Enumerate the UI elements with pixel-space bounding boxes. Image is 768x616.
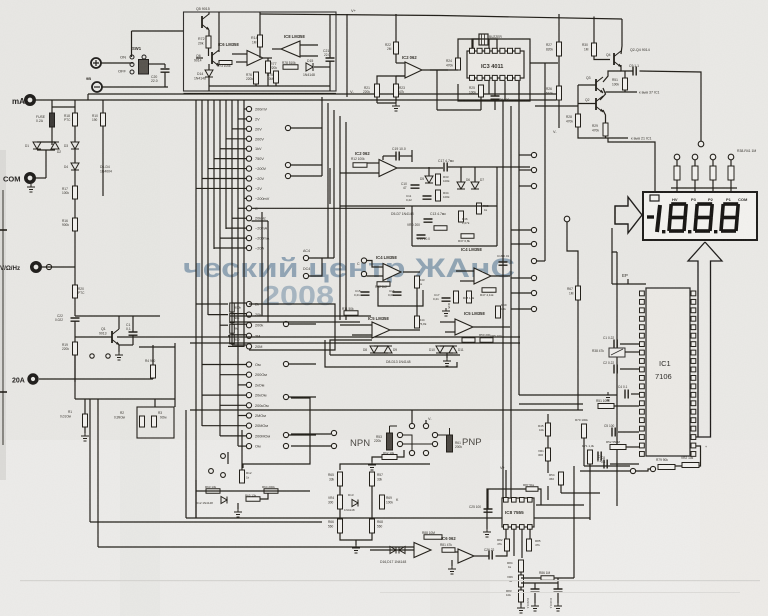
wire Q2 base stub xyxy=(578,103,596,105)
wire range stub row 14 xyxy=(220,237,246,239)
wire C19 left drop xyxy=(382,156,384,160)
wire IC8 in bottom xyxy=(300,55,318,57)
LCD decimal point 1 xyxy=(662,230,665,233)
wire IC5a in- xyxy=(352,334,372,336)
resistor R54b xyxy=(559,472,564,485)
wire D10 gnd drop xyxy=(446,353,448,358)
ground below C29 xyxy=(531,603,539,611)
wire C25 up xyxy=(487,489,489,509)
diode D11 xyxy=(449,346,457,353)
wire range stub row 11 xyxy=(238,207,246,209)
range contact 20k xyxy=(246,312,251,317)
wire selector out 4 xyxy=(289,323,317,325)
wire C17 right xyxy=(448,166,530,168)
contact DC4 xyxy=(303,273,308,278)
IC3 4011 body xyxy=(467,51,524,78)
capacitor C9 xyxy=(633,67,636,76)
wire IC4b out xyxy=(491,275,510,277)
diode D9 xyxy=(384,346,392,353)
wire range3 stub row 7 xyxy=(202,425,246,427)
capacitor C20 xyxy=(161,69,170,72)
wire col2 stub y230 xyxy=(511,229,531,231)
wire into IC6b xyxy=(370,549,414,551)
wire V+ drop to IC8 xyxy=(505,470,507,497)
wire range stub row 15 xyxy=(214,247,246,249)
range contact 200V xyxy=(246,136,251,141)
wire switch left riser xyxy=(131,31,133,57)
wire range stub row 3 xyxy=(232,128,246,130)
wire caps bus xyxy=(521,582,558,584)
wire EP tick xyxy=(627,279,629,284)
wire R67 bottom xyxy=(577,300,579,410)
wire range stub row 8 xyxy=(202,178,246,180)
wire range stub row 2 xyxy=(238,118,246,120)
wire IC6 inverting input xyxy=(232,53,247,55)
wire IC8 right link xyxy=(536,504,584,506)
resistor R20 PTC xyxy=(73,285,78,298)
wire R22 top xyxy=(395,14,397,42)
wire IC8 out left xyxy=(272,48,281,50)
resistor R52 xyxy=(610,445,626,450)
range contact 200k xyxy=(246,323,251,328)
wire mid block right drop xyxy=(496,167,498,246)
arrow pointer to display xyxy=(615,197,642,233)
wire box bottom double line xyxy=(184,93,337,95)
resistor R4 xyxy=(151,365,156,378)
battery B1 minus terminal xyxy=(92,82,102,92)
socket contact 334,446 xyxy=(331,443,336,448)
wire C6b stub xyxy=(610,463,639,465)
range contact 20V xyxy=(246,126,251,131)
capacitor C6 200 xyxy=(491,96,500,99)
wire Q1 top bus xyxy=(75,315,160,317)
wire D5 feed xyxy=(428,167,430,176)
wire IC3 bus drop xyxy=(436,70,438,110)
power regulator box xyxy=(184,12,337,91)
op-amp IC6b xyxy=(414,543,431,558)
diode D7 xyxy=(471,182,479,189)
LCD decimal point 3 xyxy=(714,230,717,233)
wire C19 tick xyxy=(411,150,413,162)
wire R86 to vertical xyxy=(554,577,574,579)
LCD display body xyxy=(643,192,757,240)
resistor R76 xyxy=(254,72,259,84)
wire D12 gnd drop xyxy=(237,503,239,509)
wire diode row box xyxy=(325,340,457,367)
wire D7 feed xyxy=(474,167,476,182)
wire C2b stub xyxy=(620,368,639,370)
wire D10 D11 top xyxy=(440,345,453,347)
capacitor C29 xyxy=(531,589,540,592)
wire range stub row 4 xyxy=(226,138,246,140)
wire IC8 in top xyxy=(300,44,318,46)
divider resistor 9k xyxy=(230,324,235,333)
wire R21 bottom xyxy=(377,102,396,104)
IC8 top pins xyxy=(504,498,509,503)
pot R38 47k xyxy=(609,348,625,357)
wire IC5a out xyxy=(390,329,420,331)
wire R21 to input xyxy=(377,76,405,84)
wire R51 bottom xyxy=(624,90,626,92)
wire IC4a in+ from contact xyxy=(367,261,384,268)
wire selector out 6 xyxy=(289,396,317,398)
wire D14 to box bottom xyxy=(208,77,210,91)
resistor R66 xyxy=(338,519,343,533)
wire Q6 collector up xyxy=(218,12,220,52)
wire col2 stub y278 xyxy=(511,277,531,279)
resistor R34 xyxy=(436,190,441,201)
ground below R83 xyxy=(517,605,525,613)
wire R24 link IC2 xyxy=(430,69,458,71)
resistor R79 90k xyxy=(658,465,675,470)
resistor R2 xyxy=(140,416,145,427)
wire R75 bottom xyxy=(275,83,277,86)
resistor R12b 1k xyxy=(240,470,245,483)
resistor R61 xyxy=(447,435,453,452)
wire C30 up xyxy=(557,578,559,589)
wire bus y410 xyxy=(190,409,583,411)
wire IC8 pin drop 4 xyxy=(529,529,531,539)
IC1 right pins xyxy=(691,291,696,296)
wire R27 to R26 xyxy=(558,56,560,86)
resistor R16 xyxy=(73,218,78,231)
wire range stub row 5 xyxy=(220,148,246,150)
wire IC3 pin3 up xyxy=(488,39,490,48)
range contact 20kHz xyxy=(246,216,251,221)
op-amp IC2a xyxy=(405,62,422,78)
ground below C17b xyxy=(442,308,450,316)
resistor R11 50k xyxy=(344,311,358,316)
resistor R57 xyxy=(370,472,375,486)
wire Q5 collector xyxy=(208,12,210,15)
wire IC3 pin5 down xyxy=(504,81,506,101)
wire fuse down xyxy=(51,127,53,145)
wire bundle vertical 4 xyxy=(213,100,215,249)
wire shunt box riser xyxy=(174,343,176,407)
wire cluster to display xyxy=(608,138,655,192)
wire arrow feed xyxy=(614,206,616,224)
capacitor C2b xyxy=(614,365,617,374)
wire C5 stub xyxy=(618,431,639,433)
capacitor C8b xyxy=(598,452,601,461)
wire buzzer right xyxy=(488,39,497,48)
wire bus y399 xyxy=(75,398,175,400)
resistor R65b 13k xyxy=(246,497,260,502)
wire C6 up xyxy=(494,81,496,96)
wire IC8 pin drop 2 xyxy=(513,529,515,556)
transistor Q5 xyxy=(201,16,203,28)
wire R51 stub xyxy=(614,405,639,407)
wire jack tick xyxy=(227,452,229,464)
wire C1 up xyxy=(132,316,134,332)
wire IC4a feedback box xyxy=(378,286,423,306)
wire DC4 link xyxy=(309,258,323,276)
switch SW1 contacts xyxy=(130,55,134,59)
display test terminal 4 xyxy=(728,154,734,160)
wire right trunk down xyxy=(573,466,575,578)
wire EP bus xyxy=(612,283,646,285)
wire chain VR6 R83 xyxy=(520,587,522,590)
capacitor C13 xyxy=(424,219,433,222)
range contact 200МОм 7 xyxy=(246,433,251,438)
wire meas col2 a xyxy=(371,486,373,519)
wire box inner bottom bus xyxy=(209,85,330,87)
ground IC8 left xyxy=(483,529,491,537)
wire second rail below box xyxy=(36,99,556,101)
wire IC5b out xyxy=(473,326,510,328)
selector contact at 288,176 xyxy=(285,173,290,178)
resistor R88 10M xyxy=(424,535,442,540)
resistor R77 xyxy=(266,61,271,73)
wire display res top 3 xyxy=(712,160,714,166)
wire IC5b in+ xyxy=(440,321,455,323)
wire R4 bottom xyxy=(152,378,154,379)
capacitor C30 xyxy=(554,589,563,592)
range contact ~200mA xyxy=(246,235,251,240)
pot VR2 10k xyxy=(682,463,699,468)
wire range stub row 1 xyxy=(244,108,246,110)
wire contact to socket b xyxy=(291,445,331,447)
wire trunk x503 xyxy=(502,101,504,518)
wire bus y322 xyxy=(230,321,360,323)
resistor R27 xyxy=(557,42,562,56)
capacitor C14 xyxy=(417,235,426,238)
resistor R311 xyxy=(728,166,734,180)
resistor R83 10k xyxy=(519,590,524,602)
wire bus y347 left xyxy=(139,346,175,348)
wire bus y404 xyxy=(519,403,583,405)
relay contact col2 4 xyxy=(531,241,536,246)
range contact ~20V xyxy=(246,176,251,181)
op-amp IC6c xyxy=(458,549,474,563)
range contact ~200V xyxy=(246,166,251,171)
resistor R44b xyxy=(415,316,420,328)
wire R29 bottom xyxy=(605,136,607,138)
wire IC3 bottom bus xyxy=(437,109,481,111)
diode D14 xyxy=(205,70,213,77)
wire below arrow xyxy=(612,228,617,252)
resistor R3 xyxy=(152,416,157,427)
relay contact col2 1 xyxy=(531,167,536,172)
resistor R65 xyxy=(338,472,343,486)
relay contact col2 7 xyxy=(531,290,536,295)
socket contact 412,453 xyxy=(409,450,414,455)
resistor R1 xyxy=(83,414,88,427)
selector contact at 286,435 xyxy=(283,432,288,437)
wire col2 stub y170 xyxy=(519,169,531,171)
wire R83 gnd xyxy=(520,602,522,605)
wire top feed to box xyxy=(132,30,185,32)
wire shunt feed xyxy=(154,399,156,407)
selector contact at 286,446 xyxy=(283,443,288,448)
transistor Q1 xyxy=(111,331,113,343)
wire AC4 link xyxy=(309,257,335,259)
resistor R85 xyxy=(527,539,532,551)
wire R18 to D3 xyxy=(74,126,76,142)
wire C29 up xyxy=(534,583,536,589)
resistor R21 xyxy=(375,84,380,97)
wire divider tap 2 xyxy=(232,313,246,315)
pot VR5 200 xyxy=(462,338,475,343)
wire D4 down xyxy=(74,170,76,186)
ground at COM xyxy=(27,184,35,192)
wire R43 down xyxy=(416,288,418,316)
wire loop left x98 xyxy=(97,399,99,547)
wire range3 stub row 8 xyxy=(220,435,246,437)
wire R27 top xyxy=(558,14,560,42)
range contact Ом 0 xyxy=(246,362,251,367)
wire R10 up xyxy=(102,100,104,113)
wire Q6 base link xyxy=(196,57,203,59)
wire testpoint link xyxy=(636,469,650,471)
wire bundle vertical 5 xyxy=(219,100,221,436)
testpoint after C9 xyxy=(698,141,704,147)
wire Q1 collector up xyxy=(118,316,120,329)
wire left feed y106 xyxy=(535,105,578,107)
wire IC5a in+ xyxy=(340,324,372,326)
wire R61 top xyxy=(438,428,450,435)
wire R87 right xyxy=(538,489,541,505)
wire cap C20 drop xyxy=(164,64,166,68)
wire IC2b feedback drop xyxy=(329,168,331,204)
wire IC3 pin1 up xyxy=(472,39,474,48)
junction near Q1 right xyxy=(106,354,110,358)
selector contact at 288,128 xyxy=(285,125,290,130)
diode D6 xyxy=(457,182,465,189)
jack contact left xyxy=(209,469,214,474)
wire range3 stub row 4 xyxy=(202,394,246,396)
wire trunk x328 xyxy=(327,103,329,258)
capacitor C1 xyxy=(129,332,138,335)
wire bus y343 xyxy=(190,342,520,344)
selector contact at 286,324 xyxy=(283,321,288,326)
resistor R37 xyxy=(461,234,474,239)
diode D12 xyxy=(221,497,227,504)
wire R14 to IC6 out xyxy=(259,47,261,58)
terminal V aux ring xyxy=(46,264,51,269)
resistor R18 PTC xyxy=(73,113,78,126)
capacitor C4 xyxy=(625,390,628,399)
wire R53 to socket xyxy=(390,425,398,427)
wire jack hook xyxy=(243,398,310,468)
resistor R42 1k xyxy=(377,282,390,287)
wire R77 column xyxy=(267,58,269,61)
wire IC6c out xyxy=(474,555,489,557)
wire chain R84 VR6 xyxy=(520,572,522,575)
wire range3 stub row 6 xyxy=(238,415,246,417)
range contact ~20mA xyxy=(246,226,251,231)
wire VR2 riser to pin xyxy=(696,446,701,466)
relay contact col2 5 xyxy=(531,258,536,263)
scan tick left lower xyxy=(0,391,7,393)
wire trunk x519 bend xyxy=(519,394,617,396)
range contact 20M xyxy=(246,344,251,349)
wire long rail below box xyxy=(88,93,556,95)
wire trunk x519 xyxy=(518,81,520,395)
wire meas col1 b xyxy=(339,509,341,519)
resistor R64 200k xyxy=(264,489,278,494)
ground near D12 xyxy=(234,509,242,517)
wire trunk x322 xyxy=(321,97,323,176)
wire bundle vertical 1 xyxy=(195,100,197,518)
wire R72 to Q6 base xyxy=(208,48,210,56)
resistor R17 xyxy=(73,186,78,199)
display test terminal 1 xyxy=(674,154,680,160)
wire output pin37 xyxy=(606,91,638,93)
wire col2 stub y244 xyxy=(511,243,531,245)
wire divider chain spine xyxy=(231,303,233,345)
wire meas bottom xyxy=(340,533,372,540)
wire battery plus to switch xyxy=(101,62,134,64)
socket contact 400,435 xyxy=(397,432,402,437)
resistor R47 xyxy=(482,288,496,293)
wire R18 up xyxy=(74,100,76,113)
wire stub link y212 xyxy=(252,220,268,222)
scan artifact line xyxy=(20,580,760,581)
wire Q6 emitter to D14 xyxy=(208,64,210,70)
wire C19 right xyxy=(400,155,412,157)
relay contact col2 0 xyxy=(531,152,536,157)
paper shading right xyxy=(560,470,768,616)
wire IC3 outer loop xyxy=(458,39,530,101)
wire R1 down xyxy=(84,427,86,433)
capacitor C17 4.7 xyxy=(444,163,447,172)
wire R53 top xyxy=(389,426,391,433)
wire col2 stub y186 xyxy=(519,185,531,187)
range contact 2k xyxy=(246,301,251,306)
wire R18 top link xyxy=(52,106,75,108)
ground IC6c xyxy=(448,566,456,574)
wire C1 bottom link xyxy=(119,344,133,346)
wire meas block top xyxy=(340,464,430,470)
wire mid block bus1 xyxy=(340,205,497,207)
switch SW1 body xyxy=(139,60,149,75)
transistor Q6 xyxy=(211,52,213,64)
ground below C30 xyxy=(554,603,562,611)
wire R67 top xyxy=(567,222,578,286)
wire bundle vertical 2 xyxy=(201,100,203,426)
wire R20 down xyxy=(74,298,76,316)
wire R31 to Q4 base xyxy=(594,56,610,60)
resistor R75 xyxy=(274,71,279,83)
IC1 7106 body xyxy=(646,288,690,456)
scan artifact line 2 xyxy=(380,592,740,593)
IC1 left pins xyxy=(640,291,645,296)
wire rail drop left xyxy=(87,94,89,100)
op-amp IC2b xyxy=(379,160,397,177)
IC3 top pins xyxy=(470,48,475,53)
wire Q1 base xyxy=(75,336,112,338)
wire col2 stub y293 xyxy=(511,292,531,294)
range contact 2кОм 2 xyxy=(246,382,251,387)
resistor R53 xyxy=(387,433,393,450)
diode D4 xyxy=(71,163,79,170)
resistor R28 xyxy=(576,114,581,127)
transistor Q2 xyxy=(595,98,597,110)
capacitor C5 xyxy=(612,428,615,437)
wire R45 col b xyxy=(547,436,549,448)
wire D6 feed xyxy=(460,167,462,182)
wire trunk x340 xyxy=(339,116,341,320)
resistor R68 xyxy=(370,519,375,533)
resistor R78 xyxy=(283,65,298,70)
wire buzzer left xyxy=(472,39,479,48)
transistor Q3 xyxy=(595,79,597,91)
wire R65b right xyxy=(260,493,268,499)
resistor R86 1M xyxy=(541,576,554,581)
op-amp IC8 xyxy=(281,41,300,57)
resistor R72 xyxy=(206,36,211,48)
